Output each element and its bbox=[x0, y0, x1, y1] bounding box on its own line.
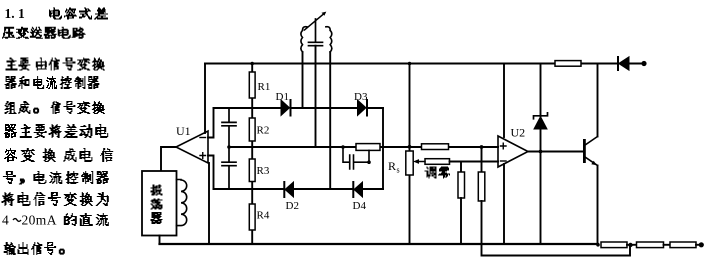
oscillator box bbox=[142, 171, 177, 236]
svg-text:1. 1: 1. 1 bbox=[5, 6, 26, 21]
wire: sensor left plate lead down to bridge top rail bbox=[302, 52, 304, 108]
wire: bridge left vertical (upper segment to U1 - input) bbox=[208, 108, 214, 138]
op-amp U2 bbox=[498, 136, 528, 167]
resistor Rs vertical line bbox=[409, 64, 411, 245]
junction dot zener/output wire bbox=[539, 150, 543, 154]
junction dot middle rail left cap bbox=[227, 145, 231, 149]
zero-adjust network: series resistor on rail bbox=[422, 144, 449, 150]
capacitor C2 (bridge lower) bbox=[222, 147, 236, 189]
op-amp U1 bbox=[176, 131, 208, 163]
diode D3 bbox=[358, 100, 367, 116]
resistor (U2 + input shunt) bbox=[478, 172, 485, 201]
resistor R2 bbox=[251, 108, 253, 147]
wire: oscillator box bottom stub to bottom rail bbox=[159, 236, 161, 245]
sensor arrow (movable plate) bbox=[305, 14, 324, 30]
terminal dot (bottom right output) bbox=[699, 242, 704, 247]
wire: inverting input line of U2 bbox=[461, 161, 498, 163]
diode D1 bbox=[281, 100, 290, 116]
zener diode VD bbox=[540, 64, 542, 117]
junction dot R1/top rail bbox=[250, 62, 254, 66]
body text paragraph bbox=[2, 58, 114, 256]
wire: non-inverting node down through resistor bbox=[481, 147, 483, 172]
junction dot RC right bbox=[367, 160, 371, 164]
svg-text:R2: R2 bbox=[257, 125, 270, 137]
resistor R3 bbox=[251, 147, 253, 189]
svg-text:U1: U1 bbox=[176, 124, 191, 138]
wire: bridge middle rail bbox=[229, 146, 498, 148]
wire: lower return rail bbox=[482, 244, 631, 256]
svg-text:D4: D4 bbox=[353, 200, 367, 212]
junction dot RC left bbox=[341, 145, 345, 149]
svg-text:R4: R4 bbox=[257, 210, 270, 222]
wire: main bottom rail bbox=[160, 243, 599, 245]
wire: emitter to bottom rail bbox=[597, 166, 599, 245]
svg-text:D2: D2 bbox=[286, 200, 299, 212]
resistor (output chain 3) bbox=[670, 242, 696, 248]
svg-text:4: 4 bbox=[2, 213, 9, 228]
junction dot U2+ shunt bbox=[480, 145, 484, 149]
resistor R1 bbox=[251, 64, 253, 109]
RC network: shunt capacitor bbox=[343, 147, 369, 169]
svg-text:D3: D3 bbox=[354, 91, 368, 103]
svg-text:s: s bbox=[397, 166, 400, 175]
wire: bridge right vertical bbox=[382, 108, 384, 189]
terminal dot (top right output) bbox=[641, 61, 646, 66]
resistor R4 bbox=[251, 189, 253, 244]
inductor (oscillator coil) bbox=[177, 180, 187, 226]
tilde of 4~20mA bbox=[13, 219, 21, 222]
wire: bridge bottom rail bbox=[214, 188, 384, 190]
capacitor C1 (bridge upper) bbox=[222, 108, 236, 147]
junction dot emitter/bottom rail bbox=[596, 243, 600, 247]
wire: sensor right plate lead down to bridge bottom rail bbox=[329, 52, 331, 189]
zero adjust label 调零 bbox=[425, 167, 451, 179]
svg-text:R3: R3 bbox=[257, 165, 270, 177]
wire: U2 output to transistor base bbox=[528, 151, 583, 153]
wire: collector to top rail bbox=[597, 64, 599, 137]
svg-text:D1: D1 bbox=[276, 91, 289, 103]
junction dot Rs/top rail bbox=[408, 62, 412, 66]
junction dot Rs/middle rail bbox=[408, 145, 412, 149]
potentiometer wiper lead w/ arrow to Rs line bbox=[417, 161, 425, 163]
resistor (output chain 1) bbox=[601, 242, 627, 248]
wire: vertical from top rail to U1 inverting input bbox=[204, 64, 206, 134]
svg-text:U2: U2 bbox=[511, 126, 526, 140]
svg-text:R: R bbox=[388, 159, 396, 173]
diode (top right output) bbox=[617, 57, 619, 70]
differential capacitor sensor: centre movable plate (capacitor) bbox=[309, 19, 323, 46]
wire: U2 ground lead bbox=[503, 164, 505, 244]
wire: potentiometer right lead down to resistor bbox=[450, 162, 462, 173]
svg-text:R1: R1 bbox=[258, 81, 271, 93]
diode D2 bbox=[285, 182, 294, 197]
resistor (top rail) bbox=[555, 61, 581, 67]
wire: bridge left vertical (lower segment from U1 + input) bbox=[208, 156, 214, 190]
wire: resistor down to bottom rail bbox=[460, 198, 462, 244]
potentiometer (调零) body bbox=[425, 159, 450, 165]
svg-text:20mA: 20mA bbox=[22, 213, 57, 228]
wire: main top supply rail bbox=[205, 63, 642, 65]
resistor (pot lower arm) bbox=[458, 172, 465, 198]
wire: U2 power lead from top rail bbox=[503, 64, 505, 138]
wire: bridge top rail bbox=[214, 107, 384, 109]
differential capacitor sensor: right curved plate bbox=[326, 27, 332, 52]
heading text 电容式差 / 压变送器电路 bbox=[2, 8, 108, 39]
wire: U1 ground lead down to bottom rail bbox=[208, 163, 210, 244]
resistor Rs body bbox=[406, 151, 413, 175]
RC network on middle rail: series resistor bbox=[356, 144, 380, 151]
differential capacitor sensor: left curved plate bbox=[301, 27, 307, 52]
wire: U1 output to oscillator bbox=[161, 147, 176, 171]
diode D4 bbox=[354, 182, 363, 197]
oscillator label 振荡器 bbox=[151, 185, 163, 225]
resistor (output chain 2) bbox=[637, 242, 664, 248]
junction dot output chain bbox=[628, 243, 632, 247]
transistor Q1 bbox=[583, 139, 586, 163]
